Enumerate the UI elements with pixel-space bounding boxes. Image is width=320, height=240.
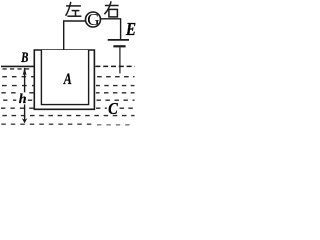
liquid surface dashes right [95, 65, 134, 67]
liquid dash row 1 (under surface, left) [3, 68, 32, 70]
svg-text:G: G [87, 10, 99, 29]
block A inner wall [41, 50, 88, 105]
arrowhead up [23, 67, 27, 75]
depth arrow h line upper [24, 68, 26, 92]
liquid dash row 4 [1, 92, 134, 94]
liquid dash row 2 [2, 76, 134, 78]
liquid surface line left [1, 65, 34, 67]
svg-text:A: A [63, 70, 72, 88]
label 右 (right) drawn as strokes [104, 1, 118, 17]
liquid dash row 3 [2, 85, 135, 87]
battery short plate [113, 45, 125, 47]
svg-text:E: E [125, 19, 136, 39]
liquid dash row 5 [3, 99, 134, 101]
battery long plate [108, 39, 129, 41]
depth arrow h line lower [24, 104, 26, 122]
arrowhead down [22, 118, 27, 123]
liquid dash row 6 (gap around label C) [1, 107, 135, 109]
wire from G left to block A [64, 21, 86, 50]
liquid dash row 8 (bottom, slightly lighter) [1, 123, 96, 125]
svg-text:h: h [19, 92, 27, 107]
wire electrode from battery into liquid [119, 47, 121, 73]
wire from G right to battery [100, 19, 120, 39]
label 左 (left) drawn as strokes [66, 2, 82, 16]
galvanometer G [86, 12, 101, 27]
block A outer wall [34, 50, 94, 109]
svg-text:B: B [20, 50, 28, 66]
liquid dash row 7 [2, 115, 134, 117]
